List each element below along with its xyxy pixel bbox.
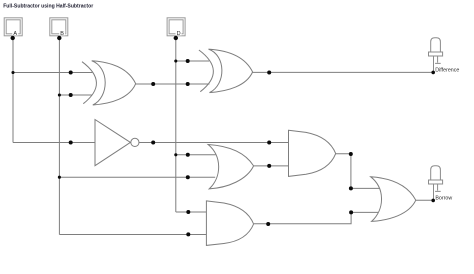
wire Bin to AND2 top input [176,211,207,213]
node NOT in [69,141,73,145]
node Bin-OR1 junction [174,153,177,156]
svg-text:Full-Subtractor using Half-Sub: Full-Subtractor using Half-Subtractor [3,4,93,10]
wire B to OR1 bottom input [59,176,215,178]
xor gate U2 ((A xor B) xor D) [199,49,253,93]
wire XOR2 output to Difference node [253,71,434,73]
node OR1 in1 [186,153,190,157]
node A-XOR1 junction [11,71,14,74]
wire A vertical [12,36,14,143]
LED Borrow [429,166,443,201]
wire NOT output to AND1 top input [139,142,289,144]
wire Bin to OR1 top input [176,154,216,156]
or gate U7 (borrow out) [371,177,416,222]
not gate U3 (A') [95,120,139,166]
pin A node [11,36,15,40]
node XOR1 in1 [69,71,73,75]
node OR2 in1 [349,186,353,190]
node XOR1 in2 [69,93,73,97]
wire A to XOR1 top input [13,72,92,74]
wire AND2 output to OR2 bottom input [254,212,380,223]
wire Bin to XOR2 top input [176,60,209,62]
svg-text:Borrow: Borrow [435,196,452,202]
input pin D (borrow in) [167,18,185,36]
node AND2 in1 [186,210,190,214]
node OR1 in2 [186,175,190,179]
label D [176,30,182,36]
and gate U6 (D and B) [206,201,253,246]
node AND1 in1 [267,141,271,145]
node Borrow junction [431,199,435,203]
input pin B [50,18,68,36]
node B-OR1 junction [58,176,61,179]
wire B vertical [58,36,60,235]
node XOR2 out [267,71,271,75]
and gate U5 (A' and (D or B)) [289,130,336,176]
label B [59,30,65,36]
wire AND1 output to OR2 top input [336,154,380,189]
node B-XOR1 junction [58,93,61,96]
svg-text:D: D [177,31,181,37]
wire Bin vertical [175,36,177,212]
node NOT out [151,141,155,145]
node XOR2 in2 [186,82,190,86]
node AND1 out corner [349,152,353,156]
node Bin-XOR2 junction [174,59,177,62]
input pin A [4,18,22,36]
node AND2 in2 [186,232,190,236]
wire A to NOT input [13,142,95,144]
LED Difference [429,38,443,73]
svg-text:A: A [13,31,17,37]
wire OR2 output to Borrow node [416,199,434,201]
label A [12,30,18,36]
wire OR1 output to AND1 bottom input [254,165,289,167]
node OR1 out / AND1 in2 [267,164,271,168]
node AND2 out [266,222,270,226]
pin B node [57,36,61,40]
wire B to XOR1 bottom input [59,94,92,96]
pin D node [174,36,178,40]
wire B to AND2 bottom input [59,234,206,236]
svg-text:B: B [60,31,64,37]
or gate U4 (D or B) [208,145,254,189]
node OR2 in2 [349,210,353,214]
node Difference junction [431,71,435,75]
node XOR2 in1 [186,59,190,63]
node XOR1 out [151,82,155,86]
svg-text:Difference: Difference [435,67,459,73]
wire XOR1 output to XOR2 bottom input [136,83,210,85]
junction and node dots [11,36,436,237]
xor gate U1 (A xor B) [82,61,136,105]
